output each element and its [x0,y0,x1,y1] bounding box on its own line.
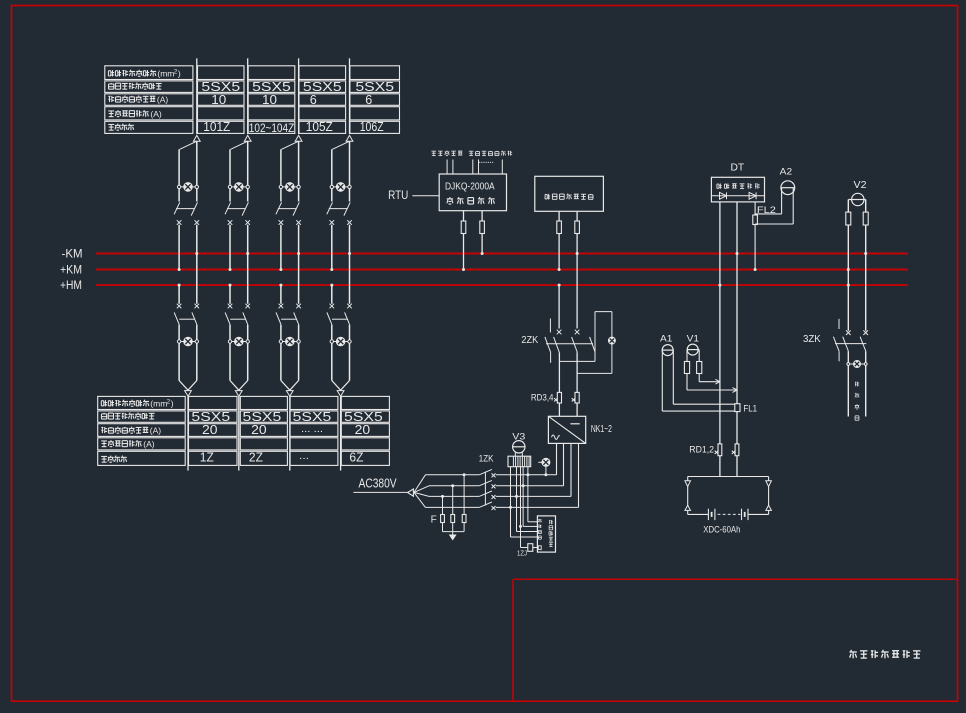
svg-text:... ...: ... ... [301,424,323,435]
svg-text:1ZK: 1ZK [479,453,494,464]
svg-text:3ZK: 3ZK [803,334,821,345]
svg-text:105Z: 105Z [306,119,333,134]
svg-text:V2: V2 [854,179,867,191]
svg-text:RTU: RTU [388,190,408,202]
svg-text:6Z: 6Z [349,449,363,464]
svg-text:DT: DT [730,162,744,174]
svg-text:DJKQ-2000A: DJKQ-2000A [445,180,495,192]
svg-text:...: ... [299,451,309,462]
svg-text:20: 20 [251,422,267,437]
svg-text:RD1,2: RD1,2 [689,445,714,455]
svg-text:2Z: 2Z [249,449,263,464]
svg-text:A2: A2 [780,166,792,177]
svg-text:(mm: (mm [157,69,174,79]
svg-text:2ZK: 2ZK [521,335,538,346]
svg-text:RD3,4: RD3,4 [531,392,554,402]
svg-text:XDC-60Ah: XDC-60Ah [703,525,740,536]
svg-text:A1: A1 [660,334,672,345]
svg-text:+HM: +HM [60,280,82,292]
svg-text:101Z: 101Z [203,119,230,134]
svg-text:(mm: (mm [150,399,167,409]
svg-text:FL1: FL1 [743,404,757,415]
svg-text:5SX5: 5SX5 [303,79,342,94]
svg-text:10: 10 [262,92,277,107]
svg-text:(A): (A) [150,426,162,436]
svg-text:V1: V1 [687,334,699,345]
svg-text:106Z: 106Z [360,119,384,134]
svg-text:AC380V: AC380V [359,476,397,491]
svg-text:20: 20 [202,422,218,437]
svg-text:5SX5: 5SX5 [355,79,394,94]
svg-text:-KM: -KM [62,248,83,260]
svg-text:1Z: 1Z [200,449,214,464]
svg-text:F: F [431,514,437,525]
svg-text:5SX5: 5SX5 [293,409,332,424]
svg-text:): ) [171,399,174,409]
svg-text:+KM: +KM [60,264,82,276]
svg-text:1ZJ: 1ZJ [517,548,527,557]
svg-text:): ) [178,69,181,79]
svg-text:(A): (A) [150,109,162,119]
svg-text:(A): (A) [143,439,155,449]
svg-text:6: 6 [310,92,317,107]
svg-text:10: 10 [211,92,226,107]
svg-text:6: 6 [365,92,372,107]
svg-text:102~104Z: 102~104Z [249,123,294,135]
svg-text:NK1~2: NK1~2 [591,424,612,435]
svg-text:20: 20 [355,422,371,437]
svg-text:(A): (A) [157,94,169,104]
